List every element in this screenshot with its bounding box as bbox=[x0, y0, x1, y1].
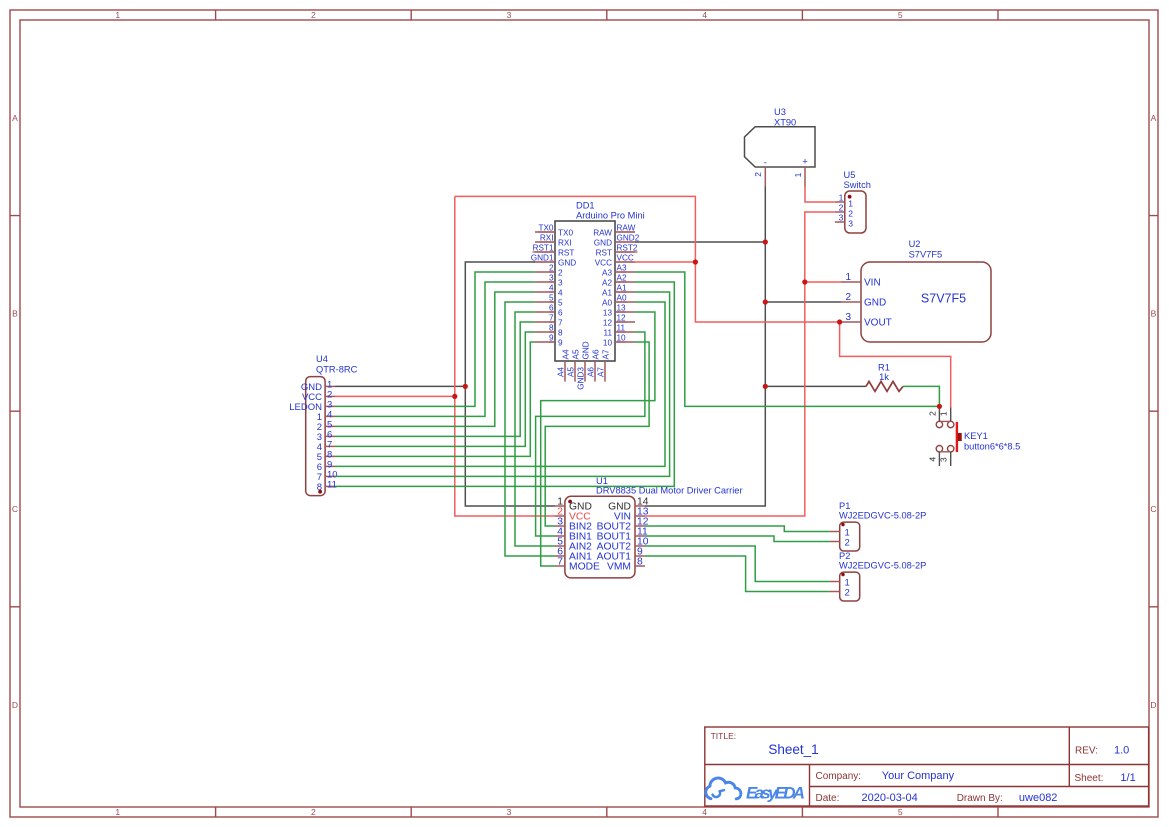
DD1 bottom pin A4 bbox=[561, 349, 570, 382]
svg-text:XT90: XT90 bbox=[774, 117, 796, 127]
U4 pin 3 LEDON bbox=[289, 400, 335, 413]
wire BAT+: XT90-1 to U5-1 bbox=[805, 187, 835, 203]
driver U1 DRV8835 Dual Motor Driver Carrier bbox=[565, 476, 743, 578]
svg-text:A7: A7 bbox=[601, 349, 610, 359]
svg-text:A4: A4 bbox=[557, 367, 566, 377]
svg-text:1: 1 bbox=[115, 10, 120, 20]
U2 pin 1 VIN bbox=[841, 272, 881, 289]
wire DD1-4 to U4-5 bbox=[335, 292, 535, 426]
DD1 left pin 6 bbox=[535, 308, 563, 317]
DD1 right pin 13 bbox=[603, 308, 635, 317]
svg-text:RAW: RAW bbox=[593, 228, 612, 237]
net label A4 bbox=[557, 367, 566, 377]
svg-text:8: 8 bbox=[558, 328, 563, 337]
net label GND2 bbox=[617, 234, 640, 243]
wire VCC: branch to KEY1-1 bbox=[840, 322, 951, 408]
svg-text:A0: A0 bbox=[602, 298, 612, 307]
wire U1 AOUT1 to P2-2 bbox=[645, 556, 830, 592]
svg-text:1: 1 bbox=[845, 272, 851, 283]
svg-text:5: 5 bbox=[898, 807, 903, 817]
U1 pin 7 MODE bbox=[555, 557, 600, 573]
svg-text:10: 10 bbox=[603, 338, 613, 347]
DD1 left pin 2 bbox=[535, 268, 563, 277]
U1 pin 13 VIN bbox=[614, 507, 649, 523]
wire GND: U2 GND to vertical bbox=[765, 301, 841, 303]
svg-text:2: 2 bbox=[848, 209, 853, 219]
wire DD1-6 to U1 AIN2 bbox=[515, 312, 555, 546]
P2 pin 2 bbox=[830, 588, 850, 599]
net label A0 bbox=[617, 294, 627, 303]
U1 pin 8 VMM bbox=[607, 557, 645, 573]
svg-text:1: 1 bbox=[939, 411, 949, 416]
DD1 right pin A3 bbox=[602, 268, 635, 277]
junction bbox=[837, 319, 842, 324]
U3 pin 2 bbox=[753, 167, 765, 187]
regulator U2 S7V7F5 bbox=[861, 239, 991, 342]
U4 pin 8 5 bbox=[317, 450, 335, 463]
junction bbox=[693, 259, 698, 264]
net label RST2 bbox=[617, 244, 638, 253]
junction bbox=[763, 299, 768, 304]
net label 3 bbox=[549, 274, 554, 283]
svg-text:A7: A7 bbox=[597, 367, 606, 377]
net label A1 bbox=[617, 284, 627, 293]
svg-text:3: 3 bbox=[507, 807, 512, 817]
KEY1 pin 4 stub bbox=[927, 452, 939, 466]
wire VIN: U5-2 down to U1-13 bbox=[645, 212, 835, 516]
svg-text:7: 7 bbox=[558, 318, 563, 327]
DD1 right pin RST2 bbox=[596, 248, 635, 257]
svg-text:MODE: MODE bbox=[569, 562, 600, 573]
svg-text:U2: U2 bbox=[909, 239, 921, 249]
switch U5 bbox=[844, 170, 871, 233]
mcu DD1 Arduino Pro Mini bbox=[555, 201, 645, 362]
svg-text:GND3: GND3 bbox=[577, 367, 586, 390]
net label A2 bbox=[617, 274, 627, 283]
DD1 bottom pin GND3 bbox=[581, 341, 590, 381]
U4 pin 1 GND bbox=[301, 380, 335, 393]
wire VIN: branch to U2 VIN bbox=[805, 281, 841, 283]
svg-text:uwe082: uwe082 bbox=[1019, 792, 1058, 804]
wire DD1-3 to U4-4 bbox=[335, 282, 535, 416]
junction bbox=[763, 239, 768, 244]
U1 pin 2 VCC bbox=[555, 507, 591, 523]
svg-text:P1: P1 bbox=[839, 501, 850, 511]
DD1 right pin GND2 bbox=[594, 238, 635, 247]
svg-text:1/1: 1/1 bbox=[1120, 772, 1135, 784]
DD1 right pin RAW bbox=[593, 228, 635, 237]
DD1 right pin A0 bbox=[602, 298, 635, 307]
net label TX0 bbox=[538, 224, 554, 233]
DD1 right pin VCC bbox=[595, 258, 635, 267]
DD1 left pin 8 bbox=[535, 328, 563, 337]
svg-text:Your Company: Your Company bbox=[882, 770, 955, 782]
svg-text:11: 11 bbox=[327, 480, 337, 491]
U2 pin 2 GND bbox=[841, 292, 886, 309]
svg-text:3: 3 bbox=[845, 312, 851, 323]
sensor U4 QTR-8RC bbox=[306, 354, 358, 496]
DD1 right pin A2 bbox=[602, 278, 635, 287]
svg-text:GND: GND bbox=[558, 258, 576, 267]
connector P1 WJ2EDGVC-5.08-2P bbox=[839, 501, 926, 551]
U1 pin 14 GND bbox=[608, 497, 649, 513]
P2 pin 1 bbox=[830, 578, 850, 589]
net label 8 bbox=[549, 324, 554, 333]
net label 2 bbox=[549, 264, 554, 273]
svg-text:4: 4 bbox=[558, 288, 563, 297]
wire U4-9 to DD1 A0 bbox=[335, 302, 665, 466]
DD1 left pin RXI bbox=[535, 238, 572, 247]
DD1 left pin TX0 bbox=[535, 228, 573, 237]
EasyEDA logo bbox=[706, 778, 808, 803]
U1 pin 12 BOUT2 bbox=[597, 517, 649, 533]
U4 pin 9 6 bbox=[317, 460, 335, 473]
svg-text:C: C bbox=[1150, 504, 1156, 514]
U2 pin 3 VOUT bbox=[841, 312, 892, 329]
KEY1 pin 3 stub bbox=[939, 452, 951, 466]
svg-text:6: 6 bbox=[558, 308, 563, 317]
net label 12 bbox=[617, 314, 627, 323]
net label GND1 bbox=[531, 254, 554, 263]
DD1 left pin 3 bbox=[535, 278, 563, 287]
KEY1 pin 1 stub bbox=[939, 408, 951, 422]
DD1 left pin 9 bbox=[535, 338, 563, 347]
U1 pin 6 AIN1 bbox=[555, 547, 592, 563]
svg-text:S7V7F5: S7V7F5 bbox=[909, 250, 943, 260]
svg-text:2: 2 bbox=[839, 203, 844, 213]
wire GND: U4-1 to vertical bbox=[335, 385, 465, 387]
U1 pin 11 BOUT1 bbox=[597, 527, 648, 543]
svg-text:3: 3 bbox=[558, 278, 563, 287]
svg-text:RXI: RXI bbox=[540, 234, 554, 243]
wire DD1-2 to U4 LEDON bbox=[335, 272, 535, 406]
net label A3 bbox=[617, 264, 627, 273]
DD1 right pin 10 bbox=[603, 338, 635, 347]
wire U1 BOUT1 to P1-2 bbox=[645, 536, 830, 542]
svg-text:REV:: REV: bbox=[1075, 746, 1098, 757]
svg-text:TX0: TX0 bbox=[558, 228, 573, 237]
DD1 bottom pin A7 bbox=[601, 349, 610, 382]
U4 pin 7 4 bbox=[317, 440, 335, 453]
DD1 left pin 7 bbox=[535, 318, 563, 327]
wire VCC: top run to U2 VOUT bbox=[455, 196, 841, 322]
net label 11 bbox=[617, 324, 626, 333]
svg-text:RAW: RAW bbox=[617, 224, 636, 233]
net label A7 bbox=[597, 367, 606, 377]
svg-text:A1: A1 bbox=[602, 288, 612, 297]
svg-text:3: 3 bbox=[507, 10, 512, 20]
svg-text:U1: U1 bbox=[596, 476, 608, 486]
wire U1 BOUT2 to P1-1 bbox=[645, 526, 830, 532]
DD1 bottom pin A6 bbox=[591, 349, 600, 382]
svg-text:2: 2 bbox=[311, 10, 316, 20]
svg-text:+: + bbox=[802, 157, 808, 168]
svg-text:A6: A6 bbox=[591, 349, 600, 359]
resistor R1 1k bbox=[866, 363, 903, 392]
net label VCC bbox=[617, 254, 634, 263]
svg-text:Switch: Switch bbox=[844, 180, 871, 190]
svg-text:8: 8 bbox=[637, 557, 643, 568]
svg-text:4: 4 bbox=[927, 457, 937, 462]
P1 pin 2 bbox=[830, 538, 850, 549]
DD1 left pin 5 bbox=[535, 298, 563, 307]
net label RAW bbox=[617, 224, 636, 233]
KEY1 pin 2 stub bbox=[927, 407, 939, 421]
svg-text:VMM: VMM bbox=[607, 562, 631, 573]
svg-text:VIN: VIN bbox=[864, 278, 881, 289]
svg-text:5: 5 bbox=[898, 10, 903, 20]
junction bbox=[463, 384, 468, 389]
svg-text:1: 1 bbox=[793, 172, 803, 177]
U1 pin 4 BIN1 bbox=[555, 527, 592, 543]
junction bbox=[452, 394, 457, 399]
svg-text:RXI: RXI bbox=[558, 238, 572, 247]
net label GND3 bbox=[577, 367, 586, 390]
svg-text:2: 2 bbox=[558, 268, 563, 277]
net label 6 bbox=[549, 304, 554, 313]
net label RXI bbox=[540, 234, 554, 243]
wire U4-10 to DD1 A1 bbox=[335, 292, 670, 476]
svg-text:1: 1 bbox=[848, 199, 853, 209]
svg-text:13: 13 bbox=[603, 308, 613, 317]
DD1 left pin GND1 bbox=[535, 258, 576, 267]
U1 pin 9 AOUT1 bbox=[597, 547, 645, 563]
svg-text:3: 3 bbox=[848, 219, 853, 229]
net label 5 bbox=[549, 294, 554, 303]
net label 10 bbox=[617, 334, 627, 343]
svg-text:Drawn By:: Drawn By: bbox=[957, 793, 1003, 804]
svg-text:TITLE:: TITLE: bbox=[711, 731, 737, 741]
svg-text:1: 1 bbox=[839, 193, 844, 203]
U5 pin 1 bbox=[835, 193, 854, 209]
wire DD1-9 to U4-8 bbox=[335, 342, 535, 456]
connector P2 WJ2EDGVC-5.08-2P bbox=[839, 551, 926, 601]
U1 pin 5 AIN2 bbox=[555, 537, 592, 553]
svg-text:1.0: 1.0 bbox=[1114, 745, 1129, 757]
svg-text:RST1: RST1 bbox=[533, 244, 554, 253]
net label 4 bbox=[549, 284, 554, 293]
P1 pin 1 bbox=[830, 528, 850, 539]
U4 pin 6 3 bbox=[317, 430, 335, 443]
DD1 left pin 4 bbox=[535, 288, 563, 297]
svg-text:QTR-8RC: QTR-8RC bbox=[316, 365, 358, 375]
U1 pin 3 BIN2 bbox=[555, 517, 592, 533]
svg-text:8: 8 bbox=[317, 482, 322, 493]
svg-text:WJ2EDGVC-5.08-2P: WJ2EDGVC-5.08-2P bbox=[839, 561, 926, 571]
svg-text:WJ2EDGVC-5.08-2P: WJ2EDGVC-5.08-2P bbox=[839, 511, 926, 521]
svg-text:VCC: VCC bbox=[595, 258, 612, 267]
svg-text:3: 3 bbox=[839, 213, 844, 223]
svg-text:button6*6*8.5: button6*6*8.5 bbox=[964, 442, 1020, 452]
svg-text:2: 2 bbox=[845, 292, 851, 303]
svg-text:Company:: Company: bbox=[816, 771, 862, 782]
svg-text:A: A bbox=[12, 113, 18, 123]
wire VCC: vertical to U1-2 bbox=[455, 196, 555, 516]
wire VCC: U4-2 to vertical bbox=[335, 395, 455, 397]
net label 7 bbox=[549, 314, 554, 323]
svg-text:A5: A5 bbox=[567, 367, 576, 377]
svg-text:GND: GND bbox=[594, 238, 612, 247]
wire GND: vertical to R1 left bbox=[765, 385, 866, 387]
net label 9 bbox=[549, 334, 554, 343]
U1 pin 1 GND bbox=[555, 497, 592, 513]
svg-text:Arduino Pro Mini: Arduino Pro Mini bbox=[576, 211, 645, 221]
svg-text:D: D bbox=[12, 700, 18, 710]
DD1 left pin RST1 bbox=[535, 248, 574, 257]
U4 pin 4 1 bbox=[317, 410, 335, 423]
svg-text:2: 2 bbox=[845, 588, 850, 599]
svg-text:U5: U5 bbox=[844, 170, 856, 180]
wire DD1 A3 to KEY1 junction bbox=[635, 272, 939, 406]
svg-text:2: 2 bbox=[311, 807, 316, 817]
wire VCC: DD1 VCC stub join bbox=[635, 261, 695, 263]
wire DD1-8 to U4-7 bbox=[335, 332, 535, 446]
wire DD1-10 to U1 BIN2 bbox=[545, 342, 649, 526]
title block bbox=[705, 727, 1149, 806]
U4 pin 5 2 bbox=[317, 420, 335, 433]
svg-text:4: 4 bbox=[702, 10, 707, 20]
svg-text:A6: A6 bbox=[587, 367, 596, 377]
svg-text:9: 9 bbox=[558, 338, 563, 347]
svg-text:2: 2 bbox=[927, 411, 937, 416]
connector U3 XT90 bbox=[745, 107, 816, 169]
svg-text:VOUT: VOUT bbox=[864, 318, 892, 329]
svg-text:GND: GND bbox=[581, 341, 590, 359]
U1 pin 10 AOUT2 bbox=[597, 537, 649, 553]
wire U1 AOUT2 to P2-1 bbox=[645, 546, 830, 582]
svg-text:12: 12 bbox=[603, 318, 613, 327]
svg-text:Date:: Date: bbox=[816, 793, 840, 804]
net label A6 bbox=[587, 367, 596, 377]
svg-text:U4: U4 bbox=[316, 354, 328, 364]
net label A5 bbox=[567, 367, 576, 377]
svg-text:B: B bbox=[1151, 309, 1157, 319]
DD1 right pin A1 bbox=[602, 288, 635, 297]
svg-text:C: C bbox=[12, 504, 18, 514]
svg-text:1k: 1k bbox=[879, 372, 889, 382]
svg-text:U3: U3 bbox=[774, 107, 786, 117]
wire DD1-7 to U4-6 bbox=[335, 322, 535, 436]
svg-text:7: 7 bbox=[557, 557, 563, 568]
svg-text:KEY1: KEY1 bbox=[964, 431, 988, 441]
wire DD1-5 to U1 AIN1 bbox=[505, 302, 555, 556]
svg-text:A2: A2 bbox=[602, 278, 612, 287]
svg-text:S7V7F5: S7V7F5 bbox=[921, 292, 966, 306]
wire U4-11 to DD1 A2 bbox=[335, 282, 674, 486]
wire GND: DD1 GND1 down to U1-1 bbox=[465, 262, 555, 506]
svg-text:2: 2 bbox=[753, 172, 763, 177]
svg-text:GND: GND bbox=[864, 298, 886, 309]
pushbutton KEY1 bbox=[936, 421, 1020, 452]
svg-text:EasyEDA: EasyEDA bbox=[746, 784, 805, 803]
svg-text:1: 1 bbox=[115, 807, 120, 817]
svg-text:A3: A3 bbox=[602, 268, 612, 277]
U3 pin 1 bbox=[793, 167, 805, 187]
svg-text:RST: RST bbox=[558, 248, 574, 257]
svg-text:-: - bbox=[764, 158, 767, 169]
U4 pin 10 7 bbox=[317, 470, 338, 483]
svg-text:Sheet_1: Sheet_1 bbox=[768, 742, 818, 757]
DD1 bottom pin A5 bbox=[571, 349, 580, 382]
junction bbox=[937, 404, 942, 409]
DD1 right pin 11 bbox=[604, 328, 636, 337]
svg-text:TX0: TX0 bbox=[538, 224, 553, 233]
U4 pin 11 8 bbox=[317, 480, 337, 493]
net label 13 bbox=[617, 304, 627, 313]
svg-text:A4: A4 bbox=[561, 349, 570, 359]
svg-text:A: A bbox=[1151, 113, 1157, 123]
U5 pin 3 bbox=[835, 213, 854, 229]
svg-text:3: 3 bbox=[939, 457, 949, 462]
svg-text:11: 11 bbox=[604, 328, 613, 337]
svg-text:A5: A5 bbox=[571, 349, 580, 359]
U4 pin 2 VCC bbox=[302, 390, 335, 403]
svg-text:5: 5 bbox=[558, 298, 563, 307]
wire DD1-13 to U1 MODE bbox=[541, 312, 655, 566]
svg-text:RST: RST bbox=[596, 248, 612, 257]
wire GND: XT90-2 down to U1-14 bbox=[645, 187, 765, 507]
net label RST1 bbox=[533, 244, 554, 253]
svg-text:DD1: DD1 bbox=[576, 201, 595, 211]
svg-text:2020-03-04: 2020-03-04 bbox=[862, 792, 918, 804]
svg-text:2: 2 bbox=[845, 538, 850, 549]
junction bbox=[763, 384, 768, 389]
junction bbox=[802, 279, 807, 284]
DD1 right pin 12 bbox=[603, 318, 635, 327]
svg-text:4: 4 bbox=[702, 807, 707, 817]
svg-text:Sheet:: Sheet: bbox=[1075, 773, 1104, 784]
wire DD1-11 to U1 BIN1 bbox=[536, 332, 645, 536]
wire R1 right to KEY1 junction bbox=[903, 386, 939, 406]
wire GND: DD1 GND2 to vertical bbox=[635, 241, 765, 243]
svg-text:RST2: RST2 bbox=[617, 244, 638, 253]
svg-text:D: D bbox=[1150, 700, 1156, 710]
U5 pin 2 bbox=[835, 203, 854, 219]
svg-text:P2: P2 bbox=[839, 551, 850, 561]
svg-text:B: B bbox=[12, 309, 18, 319]
